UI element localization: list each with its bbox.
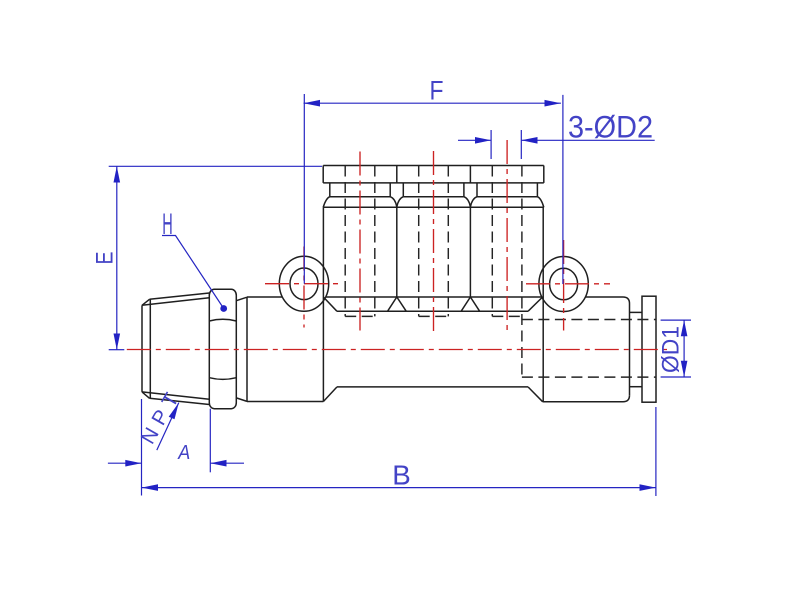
svg-text:3-ØD2: 3-ØD2 — [568, 109, 653, 145]
svg-text:B: B — [392, 460, 411, 491]
svg-text:F: F — [430, 75, 444, 105]
svg-text:A: A — [177, 442, 190, 464]
svg-text:ØD1: ØD1 — [658, 326, 685, 373]
svg-text:E: E — [92, 252, 119, 265]
svg-text:H: H — [162, 208, 173, 241]
